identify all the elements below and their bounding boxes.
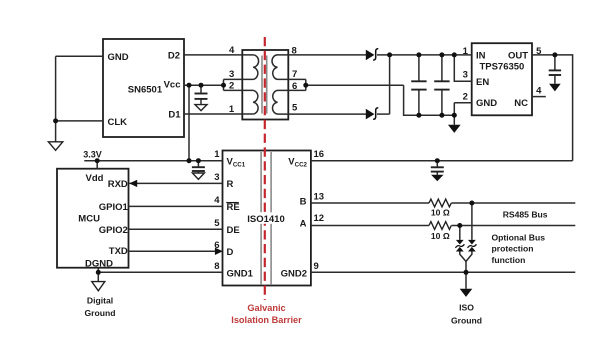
svg-text:GPIO1: GPIO1 [99,202,129,213]
svg-text:5: 5 [536,46,542,57]
svg-text:6: 6 [214,240,219,251]
svg-text:GND: GND [108,52,129,63]
svg-text:DE: DE [227,225,240,236]
svg-text:protection: protection [492,244,534,254]
svg-text:4: 4 [536,86,542,97]
svg-text:MCU: MCU [78,214,100,225]
svg-text:4: 4 [229,45,235,56]
svg-text:12: 12 [314,213,325,224]
svg-text:16: 16 [314,149,325,160]
svg-text:1: 1 [214,149,220,160]
svg-text:Isolation Barrier: Isolation Barrier [231,315,302,325]
svg-text:GND: GND [476,98,497,109]
svg-text:A: A [300,219,307,230]
svg-text:8: 8 [292,45,297,56]
svg-text:TPS76350: TPS76350 [479,61,524,72]
svg-text:Optional Bus: Optional Bus [492,233,546,243]
svg-text:CLK: CLK [108,117,128,128]
svg-text:1: 1 [463,46,469,57]
svg-text:2: 2 [229,81,234,92]
svg-text:3: 3 [214,172,219,183]
svg-text:DGND: DGND [85,258,113,269]
svg-text:7: 7 [292,69,297,80]
svg-text:9: 9 [314,261,319,272]
svg-text:Ground: Ground [84,308,115,318]
svg-text:Vcc: Vcc [164,80,181,91]
svg-text:TXD: TXD [109,246,128,257]
svg-text:RXD: RXD [108,179,128,190]
svg-text:5: 5 [214,218,220,229]
svg-text:1: 1 [229,104,235,115]
svg-text:5: 5 [292,103,298,114]
svg-text:Vdd: Vdd [86,173,104,184]
svg-text:IN: IN [476,50,486,61]
svg-text:ISO1410: ISO1410 [247,214,285,225]
svg-text:GPIO2: GPIO2 [99,225,128,236]
svg-text:Digital: Digital [87,295,113,305]
svg-text:RE: RE [227,202,240,213]
svg-text:EN: EN [476,77,489,88]
svg-text:D1: D1 [168,110,181,121]
svg-text:R: R [227,179,234,190]
svg-text:2: 2 [463,91,468,102]
svg-text:function: function [492,255,526,265]
svg-text:3.3V: 3.3V [83,149,102,159]
svg-text:10 Ω: 10 Ω [431,231,450,241]
svg-text:D: D [227,247,234,258]
svg-text:B: B [300,196,307,207]
svg-text:4: 4 [214,195,220,206]
svg-text:OUT: OUT [508,50,528,61]
svg-text:RS485 Bus: RS485 Bus [503,209,548,219]
svg-text:D2: D2 [168,50,180,61]
svg-text:3: 3 [229,69,234,80]
svg-text:Galvanic: Galvanic [247,303,285,313]
svg-text:GND1: GND1 [227,268,254,279]
svg-text:NC: NC [514,98,528,109]
svg-text:SN6501: SN6501 [128,85,163,96]
svg-text:8: 8 [214,261,219,272]
svg-text:3: 3 [463,70,468,81]
svg-text:ISO: ISO [459,303,474,313]
svg-text:Ground: Ground [451,315,482,325]
svg-text:13: 13 [314,192,325,203]
svg-text:6: 6 [292,81,297,92]
svg-text:GND2: GND2 [281,268,307,279]
svg-text:10 Ω: 10 Ω [431,207,450,217]
